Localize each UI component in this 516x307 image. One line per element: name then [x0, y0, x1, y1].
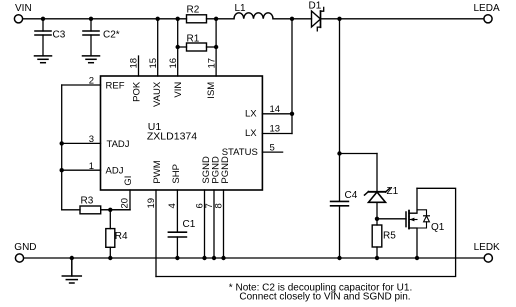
junction VAUX/top wire	[156, 17, 160, 21]
junction pin1	[60, 168, 64, 172]
pin 8 PGND wire	[213, 156, 231, 258]
note text	[229, 282, 412, 302]
junction C1/gnd	[175, 256, 179, 260]
junction gnd symbol	[70, 256, 74, 260]
pin 18 POK stub	[129, 56, 143, 102]
pin 19 PWM wire	[146, 160, 163, 276]
svg-text:8: 8	[213, 203, 224, 208]
op-amp U1 IC body ZXLD1374	[101, 76, 263, 190]
svg-text:C3: C3	[53, 30, 66, 41]
svg-text:GI: GI	[123, 176, 134, 186]
svg-text:REF: REF	[106, 81, 125, 92]
wire R2 to L1	[207, 18, 235, 20]
wire VIN to R2	[23, 18, 187, 20]
svg-text:19: 19	[146, 198, 157, 209]
svg-text:15: 15	[148, 58, 159, 69]
junction LX pin14	[290, 112, 294, 116]
svg-text:ISM: ISM	[206, 82, 217, 99]
junction Q1 source/gnd	[415, 256, 419, 260]
svg-text:C1: C1	[183, 219, 196, 230]
svg-text:R1: R1	[187, 34, 200, 45]
svg-text:13: 13	[270, 124, 281, 135]
svg-text:VAUX: VAUX	[152, 81, 163, 107]
junction C2/VIN	[89, 17, 93, 21]
junction R2 right	[214, 17, 218, 21]
svg-text:LEDK: LEDK	[474, 242, 500, 253]
wire D1 out drop	[339, 19, 341, 202]
node LEDA	[474, 3, 500, 23]
resistor R3	[62, 196, 130, 214]
resistor R5	[372, 225, 396, 258]
svg-text:PGND: PGND	[220, 156, 231, 184]
svg-text:R2: R2	[187, 4, 200, 15]
junction R3/R4/GI	[108, 208, 112, 212]
resistor R1	[178, 34, 216, 52]
svg-text:POK: POK	[131, 81, 142, 102]
resistor R4	[106, 210, 128, 258]
svg-text:LEDA: LEDA	[474, 3, 500, 14]
capacitor C1	[168, 219, 195, 258]
pin 1 ADJ stub	[62, 161, 124, 177]
svg-text:20: 20	[120, 198, 131, 209]
wire gate	[377, 218, 406, 220]
wire PWM loop to Q1 drain	[156, 188, 456, 276]
svg-text:LX: LX	[245, 108, 257, 119]
svg-text:R5: R5	[383, 231, 396, 242]
junction R2 left	[176, 17, 180, 21]
node GND	[14, 242, 36, 262]
resistor R2	[187, 4, 207, 23]
inductor L1	[234, 3, 273, 19]
junction Z1/R5/gate	[375, 217, 379, 221]
pin 14 LX stub	[245, 104, 292, 119]
node LEDK	[474, 242, 500, 262]
junction pin3	[60, 141, 64, 145]
svg-text:GND: GND	[14, 242, 36, 253]
svg-text:L1: L1	[235, 3, 247, 14]
svg-text:4: 4	[167, 203, 178, 208]
pin 15 VAUX wire	[148, 19, 163, 107]
svg-text:14: 14	[270, 104, 281, 115]
svg-text:SHP: SHP	[171, 164, 182, 184]
pin 5 STATUS stub	[222, 142, 283, 158]
junction pin7/gnd	[212, 256, 216, 260]
wire D1 to LEDA	[321, 18, 484, 20]
junction C4 branch	[337, 151, 341, 155]
svg-text:Z1: Z1	[387, 186, 399, 197]
svg-text:5: 5	[270, 142, 275, 153]
svg-text:C4: C4	[345, 190, 358, 201]
svg-text:ZXLD1374: ZXLD1374	[147, 131, 197, 143]
svg-text:LX: LX	[245, 128, 257, 139]
junction D1 out/top wire	[337, 17, 341, 21]
ground (main)	[62, 258, 81, 283]
svg-text:ADJ: ADJ	[106, 166, 124, 177]
junction LX drop/top wire	[290, 17, 294, 21]
svg-text:Connect closely to VIN and SGN: Connect closely to VIN and SGND pin.	[239, 292, 410, 303]
pin 6 SGND wire	[194, 156, 212, 258]
svg-text:18: 18	[129, 58, 140, 69]
pin 2 REF stub	[62, 76, 125, 92]
svg-text:1: 1	[89, 161, 94, 172]
pin 3 TADJ stub	[62, 134, 130, 150]
svg-text:3: 3	[89, 134, 94, 145]
junction pin6/gnd	[202, 256, 206, 260]
junction R1 right	[214, 45, 218, 49]
diode D1 (schottky)	[309, 1, 324, 31]
pin 4 SHP stub	[167, 164, 182, 232]
pin 20 GI stub	[101, 176, 135, 210]
svg-text:R4: R4	[115, 231, 128, 242]
wire left bracket (REF/TADJ/ADJ to R3)	[61, 85, 63, 210]
svg-text:C2*: C2*	[103, 30, 120, 41]
svg-text:16: 16	[168, 58, 179, 69]
capacitor C3	[35, 19, 66, 56]
svg-text:2: 2	[89, 76, 94, 87]
junction R4/gnd	[108, 256, 112, 260]
transistor Q1 (N-MOSFET)	[406, 188, 445, 258]
junction R1 left	[176, 45, 180, 49]
svg-text:Q1: Q1	[431, 222, 445, 233]
junction C3/VIN	[41, 17, 45, 21]
pin 7 PGND wire	[204, 156, 222, 258]
junction C4/gnd	[337, 256, 341, 260]
zener Z1	[365, 186, 399, 225]
svg-text:R3: R3	[81, 196, 94, 207]
svg-text:PWM: PWM	[152, 160, 163, 183]
capacitor C2	[83, 19, 120, 56]
wire L1 to D1	[273, 18, 312, 20]
pin 17 ISM wire	[206, 19, 217, 99]
svg-text:VIN: VIN	[15, 3, 32, 14]
pin 13 LX stub	[245, 124, 292, 139]
ground (C3)	[35, 56, 52, 63]
svg-text:TADJ: TADJ	[107, 139, 130, 150]
pin 16 VIN wire	[168, 19, 184, 98]
svg-text:D1: D1	[309, 1, 322, 12]
junction pin8/gnd	[221, 256, 225, 260]
svg-text:17: 17	[206, 58, 217, 69]
junction R5/gnd	[375, 256, 379, 260]
wire LX drop	[291, 19, 293, 134]
node VIN	[14, 3, 31, 23]
capacitor C4	[331, 190, 358, 258]
svg-text:VIN: VIN	[173, 82, 184, 98]
wire branch to Z1	[340, 154, 378, 192]
ground (C2)	[83, 56, 100, 63]
wire GND rail	[24, 257, 484, 259]
